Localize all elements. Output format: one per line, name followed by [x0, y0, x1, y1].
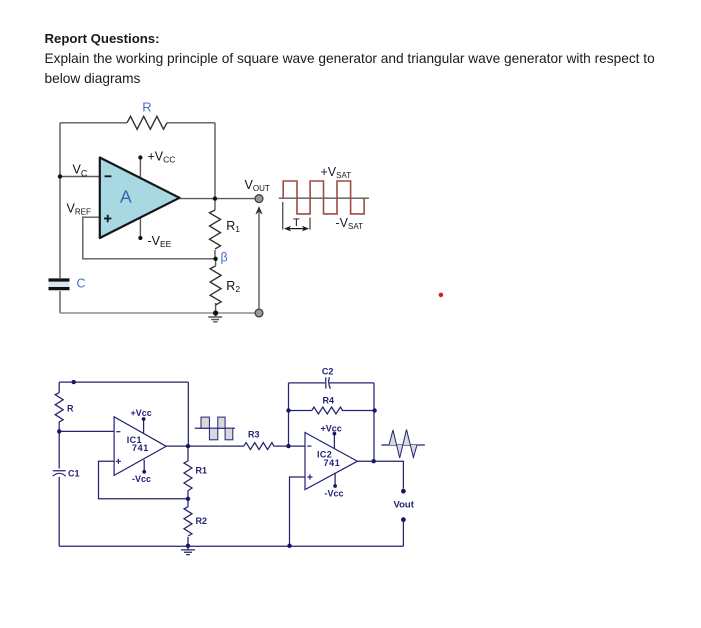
svg-text:R1: R1 [226, 219, 240, 234]
svg-text:β: β [221, 251, 228, 265]
svg-text:+Vcc: +Vcc [131, 408, 152, 418]
svg-text:741: 741 [324, 458, 341, 468]
svg-text:R2: R2 [226, 279, 240, 294]
svg-text:741: 741 [132, 443, 149, 453]
svg-text:C: C [77, 277, 86, 291]
svg-text:R: R [142, 100, 151, 115]
svg-text:R3: R3 [248, 430, 260, 440]
svg-text:Vout: Vout [394, 500, 415, 511]
svg-text:VREF: VREF [67, 202, 91, 217]
svg-text:+Vcc: +Vcc [321, 424, 342, 434]
svg-text:A: A [120, 187, 132, 207]
svg-text:below diagrams: below diagrams [45, 71, 141, 86]
svg-text:R2: R2 [196, 516, 208, 526]
svg-text:C2: C2 [322, 367, 334, 377]
svg-text:R4: R4 [323, 396, 335, 406]
svg-text:+VSAT: +VSAT [321, 165, 352, 180]
svg-text:-VSAT: -VSAT [336, 216, 364, 231]
svg-text:Explain the working principle: Explain the working principle of square … [45, 51, 656, 66]
svg-text:VOUT: VOUT [245, 178, 270, 193]
svg-text:R1: R1 [196, 466, 208, 476]
svg-text:-VEE: -VEE [148, 234, 172, 249]
svg-text:+VCC: +VCC [148, 150, 176, 165]
svg-text:-Vcc: -Vcc [325, 489, 344, 499]
svg-text:-Vcc: -Vcc [132, 474, 151, 484]
svg-text:R: R [67, 404, 74, 414]
svg-text:T: T [293, 217, 300, 229]
svg-text:VC: VC [73, 163, 88, 179]
svg-text:C1: C1 [68, 469, 80, 479]
svg-text:Report Questions:: Report Questions: [45, 31, 160, 46]
